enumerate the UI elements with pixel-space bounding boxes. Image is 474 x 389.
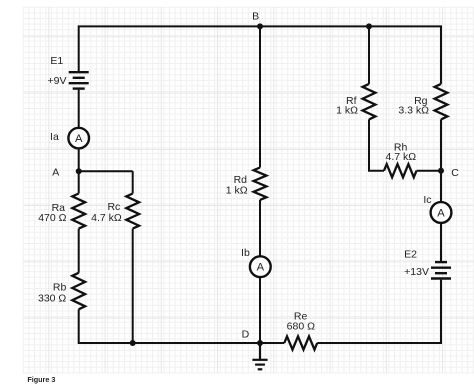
junction Rc-bottom <box>130 340 136 346</box>
wire <box>78 90 80 128</box>
svg-text:470 Ω: 470 Ω <box>38 212 66 224</box>
wire <box>259 200 261 256</box>
wire <box>132 171 134 193</box>
ammeter Ib <box>250 256 271 277</box>
svg-text:Figure 3: Figure 3 <box>27 375 55 384</box>
svg-text:Ia: Ia <box>50 131 59 143</box>
resistor Re <box>284 336 317 349</box>
svg-text:680 Ω: 680 Ω <box>287 321 315 333</box>
svg-text:1 kΩ: 1 kΩ <box>226 185 248 197</box>
svg-text:A: A <box>437 208 445 220</box>
svg-text:E1: E1 <box>50 55 63 67</box>
wire <box>368 26 370 84</box>
wire <box>259 277 261 343</box>
node C junction <box>438 168 444 174</box>
wire <box>440 119 442 170</box>
svg-text:Rc: Rc <box>107 201 120 213</box>
svg-text:+13V: +13V <box>404 266 429 278</box>
node B junction <box>257 23 263 29</box>
wire <box>440 171 442 203</box>
svg-text:Ic: Ic <box>423 194 431 206</box>
resistor Rh <box>384 164 417 177</box>
svg-text:1 kΩ: 1 kΩ <box>336 104 358 116</box>
resistor Rg <box>435 84 448 120</box>
wire <box>79 309 285 343</box>
ammeter Ia <box>68 128 89 149</box>
node A junction <box>76 168 82 174</box>
wire <box>317 280 441 343</box>
battery E1 <box>69 72 89 88</box>
wire <box>369 119 384 170</box>
svg-text:3.3 kΩ: 3.3 kΩ <box>398 104 429 116</box>
svg-text:A: A <box>75 133 83 145</box>
resistor Rc <box>126 194 139 229</box>
node D junction <box>257 340 263 346</box>
svg-text:Ib: Ib <box>241 247 250 259</box>
resistor Rd <box>254 168 267 200</box>
ammeter Ic <box>431 202 452 223</box>
svg-text:4.7 kΩ: 4.7 kΩ <box>91 212 122 224</box>
svg-text:D: D <box>242 328 250 340</box>
svg-text:330 Ω: 330 Ω <box>38 292 66 304</box>
resistor Rb <box>72 273 85 310</box>
svg-text:A: A <box>257 262 265 274</box>
wire <box>259 26 261 167</box>
resistor Rf <box>363 84 376 120</box>
ground <box>252 343 267 369</box>
resistor Ra <box>72 194 85 229</box>
battery E2 <box>431 262 451 278</box>
wire <box>132 229 134 343</box>
wire <box>79 26 441 84</box>
svg-text:E2: E2 <box>404 249 417 261</box>
svg-text:4.7 kΩ: 4.7 kΩ <box>385 151 416 163</box>
wire <box>440 223 442 261</box>
svg-text:+9V: +9V <box>48 75 67 87</box>
wire <box>79 170 133 172</box>
svg-text:B: B <box>252 10 259 22</box>
wire <box>78 229 80 273</box>
junction Rf-top <box>366 23 372 29</box>
wire <box>417 170 442 172</box>
svg-text:C: C <box>451 167 459 179</box>
wire <box>78 148 80 193</box>
svg-text:A: A <box>52 166 59 178</box>
